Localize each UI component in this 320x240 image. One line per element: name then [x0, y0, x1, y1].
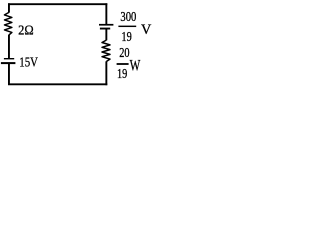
svg-text:20: 20 — [119, 46, 129, 61]
svg-text:19: 19 — [121, 30, 131, 45]
svg-text:300: 300 — [120, 10, 136, 25]
svg-text:V: V — [141, 22, 152, 38]
svg-text:2Ω: 2Ω — [18, 23, 34, 38]
svg-text:19: 19 — [117, 67, 127, 82]
svg-text:W: W — [130, 56, 141, 74]
svg-text:15V: 15V — [19, 55, 38, 70]
